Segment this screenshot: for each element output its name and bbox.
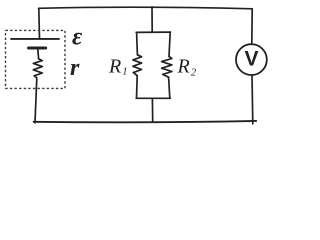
- resistor r (internal resistance): [33, 59, 42, 78]
- resistor R1: [133, 55, 142, 76]
- wire center stub top: [151, 7, 153, 32]
- wire R2 branch upper: [169, 32, 170, 56]
- wire bottom rail: [34, 121, 257, 122]
- svg-text:R2: R2: [177, 55, 197, 78]
- voltmeter V circle: [236, 44, 267, 75]
- wire inner bottom bar: [136, 97, 170, 99]
- battery cell long plate (+): [11, 38, 59, 40]
- svg-text:r: r: [70, 55, 80, 81]
- svg-text:R1: R1: [108, 56, 128, 78]
- wire R2 branch lower: [169, 77, 170, 98]
- wire center stub bottom: [151, 98, 153, 121]
- wire R1 branch lower: [136, 76, 139, 99]
- wire top rail: [39, 7, 253, 9]
- resistor R2: [162, 56, 172, 77]
- wire cell to resistor r: [37, 49, 40, 59]
- wire inner top bar: [136, 31, 170, 33]
- svg-text:V: V: [244, 48, 258, 71]
- battery boundary dashed box: [6, 30, 66, 88]
- wire left edge upper (corner to cell): [38, 8, 41, 39]
- wire right edge upper: [251, 9, 253, 44]
- wire R1 branch upper: [136, 32, 139, 54]
- wire right edge lower: [251, 75, 254, 124]
- battery cell short thick plate (-): [29, 47, 46, 50]
- wire left edge lower: [35, 78, 37, 123]
- svg-text:ε: ε: [72, 24, 83, 51]
